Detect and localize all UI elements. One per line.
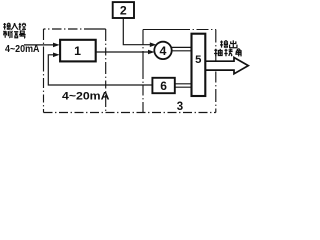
double line comparator 4 to block 5 [172,47,192,50]
label: input control signal (Chinese) line 2: zhi xin hao [3,31,25,38]
svg-text:3: 3 [177,101,183,113]
label shaft angle (Chinese): zhou zhuan jiao [214,49,241,57]
wire feedback from block 6 to block 1 [48,55,152,85]
output hollow arrow [206,58,249,74]
block 2 [113,2,134,18]
boundary 3 internal chain divider B [142,30,144,113]
svg-text:1: 1 [74,44,81,58]
svg-text:5: 5 [195,54,201,66]
wire input signal to block 1 [24,44,54,46]
arrowhead into comparator 4 from block 2 [150,42,157,47]
svg-text:4: 4 [160,44,167,58]
svg-text:2: 2 [120,4,127,18]
arrowhead into block 1 lower [53,53,60,58]
label output (Chinese): shu chu [220,40,237,48]
block 6 [152,78,174,93]
boundary 3 internal chain divider A [105,29,107,113]
label: input control signal (Chinese) line 1: shu ru kong [3,23,26,30]
svg-text:4~20mA: 4~20mA [5,44,40,55]
comparator 4 [154,42,171,59]
block 5 [192,34,206,96]
svg-text:6: 6 [160,79,167,93]
boundary 3 bottom chain edge [44,112,216,114]
double line block 6 to block 5 [175,84,192,87]
boundary 3 right chain edge [215,30,217,113]
boundary 3 left chain edge [43,29,45,113]
arrowhead into block 1 upper [53,43,60,48]
boundary 3 top-left chain segment [44,28,106,30]
arrowhead into comparator 4 from block 1 [148,50,155,55]
boundary 3 top-right chain segment [143,29,216,31]
wire block 2 down to comparator 4 [123,18,151,45]
svg-text:4~20mA: 4~20mA [62,91,110,103]
wire block 1 output to comparator 4 [96,51,149,53]
block 1 [60,40,96,62]
